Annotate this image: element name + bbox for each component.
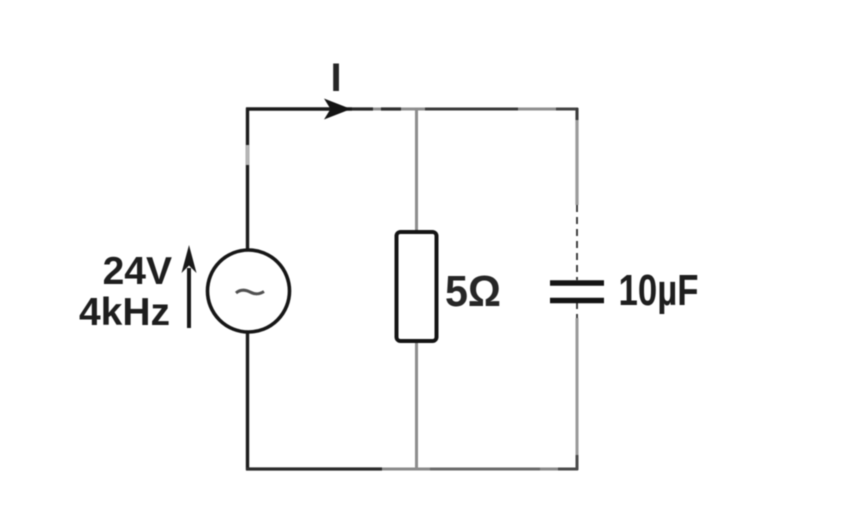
- label 24V: [103, 250, 172, 293]
- source polarity arrow (up): [182, 245, 197, 328]
- capacitor (10 uF) top plate: [550, 280, 604, 286]
- wire bottom: [246, 468, 578, 471]
- label 10µF: [619, 266, 699, 315]
- current arrowhead on top wire: [324, 99, 351, 120]
- label I: [330, 56, 341, 100]
- ac source sine tilde: [236, 290, 264, 294]
- svg-text:10µF: 10µF: [619, 266, 699, 315]
- label 4kHz: [79, 291, 170, 334]
- wire middle branch upper (resistor top lead): [415, 109, 418, 231]
- wire right lower (capacitor bottom lead): [576, 302, 578, 470]
- wire right upper (capacitor top lead): [575, 108, 578, 280]
- svg-text:I: I: [330, 56, 341, 100]
- wire left upper (source top lead): [246, 108, 249, 250]
- svg-text:4kHz: 4kHz: [79, 291, 170, 334]
- ac source V1 (circle): [208, 250, 290, 332]
- wire left lower (source bottom lead): [246, 333, 249, 470]
- label 5Ω: [445, 267, 501, 316]
- svg-text:24V: 24V: [103, 250, 172, 293]
- resistor (5 ohm): [397, 232, 437, 341]
- svg-text:5Ω: 5Ω: [445, 267, 501, 316]
- capacitor (10 uF) bottom plate: [550, 298, 604, 304]
- wire top (node between source, resistor, capacitor): [246, 108, 578, 111]
- wire middle branch lower (resistor bottom lead): [415, 342, 418, 469]
